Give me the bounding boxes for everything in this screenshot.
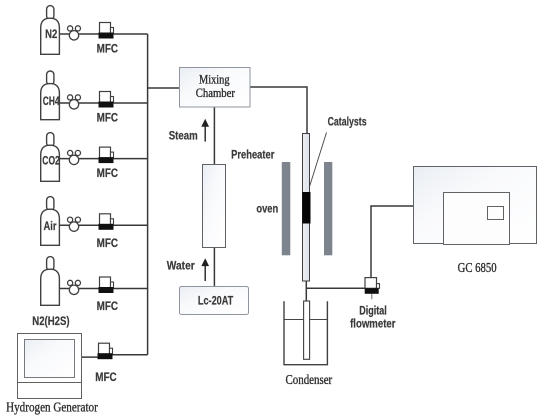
svg-text:Air: Air [44, 219, 57, 233]
svg-text:flowmeter: flowmeter [350, 317, 396, 331]
svg-text:Condenser: Condenser [286, 372, 333, 387]
svg-text:MFC: MFC [95, 370, 117, 384]
svg-text:CH4: CH4 [43, 94, 60, 108]
svg-text:MFC: MFC [97, 166, 119, 180]
svg-text:Steam: Steam [169, 128, 198, 142]
svg-text:CO2: CO2 [42, 154, 60, 168]
svg-text:Water: Water [167, 258, 195, 272]
svg-text:Digital: Digital [359, 304, 387, 318]
svg-text:Hydrogen Generator: Hydrogen Generator [6, 401, 98, 416]
svg-text:Catalysts: Catalysts [328, 115, 367, 129]
svg-text:N2(H2S): N2(H2S) [32, 314, 69, 328]
svg-text:MFC: MFC [97, 236, 119, 250]
svg-text:MFC: MFC [97, 299, 119, 313]
svg-text:MFC: MFC [97, 42, 119, 56]
svg-text:Preheater: Preheater [231, 147, 275, 161]
svg-text:N2: N2 [45, 27, 57, 41]
svg-text:MFC: MFC [97, 111, 119, 125]
svg-text:GC 6850: GC 6850 [458, 261, 497, 276]
svg-text:Mixing: Mixing [199, 72, 230, 86]
svg-text:Chamber: Chamber [196, 86, 236, 100]
svg-text:Lc-20AT: Lc-20AT [198, 294, 234, 308]
svg-text:oven: oven [256, 202, 278, 216]
